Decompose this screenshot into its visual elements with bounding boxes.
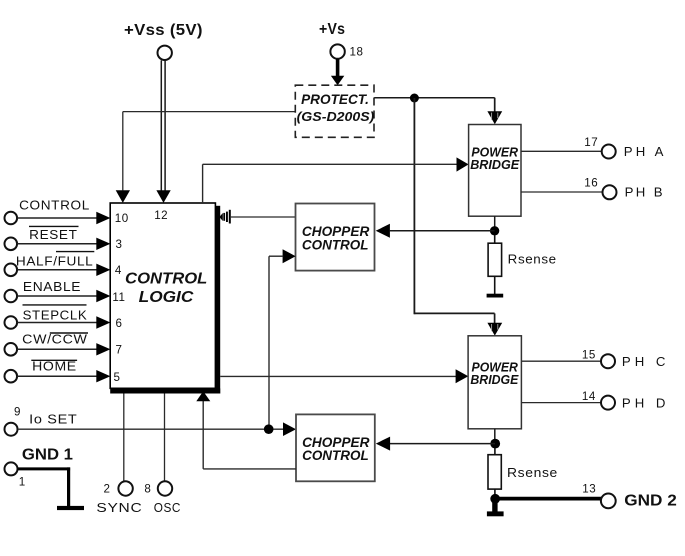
svg-text:STEPCLK: STEPCLK bbox=[23, 308, 88, 323]
wire OSC to control logic bottom bbox=[164, 394, 166, 482]
junction J1 on +Vs rail bbox=[410, 94, 419, 103]
svg-text:+Vss (5V): +Vss (5V) bbox=[124, 22, 203, 39]
input terminal CW/CCW pin 7 bbox=[5, 331, 111, 355]
junction J2 below bridge 1 bbox=[490, 226, 499, 235]
svg-text:12: 12 bbox=[154, 209, 168, 222]
svg-text:15: 15 bbox=[582, 349, 596, 362]
terminal +Vss pin 12 bbox=[124, 22, 203, 60]
output terminal PH D pin 14 bbox=[522, 390, 667, 410]
input terminal HALF/FULL pin 4 bbox=[5, 252, 111, 277]
wire control logic right to power bridge 2 bbox=[220, 375, 456, 377]
svg-text:13: 13 bbox=[582, 482, 596, 495]
wire chopper 2 output to control logic bottom bbox=[203, 401, 296, 469]
wire SYNC to control logic bottom bbox=[123, 394, 125, 482]
svg-text:Rsense: Rsense bbox=[507, 465, 558, 480]
svg-text:1: 1 bbox=[19, 476, 26, 489]
hatched arrow into control logic right (from chopper 1) bbox=[219, 210, 230, 224]
svg-text:10: 10 bbox=[115, 212, 129, 225]
wire chopper 1 output to control logic bbox=[231, 216, 296, 218]
svg-text:4: 4 bbox=[115, 264, 122, 277]
resistor Rsense 1 bbox=[488, 235, 557, 276]
svg-text:18: 18 bbox=[350, 46, 364, 59]
junction J3 below bridge 2 bbox=[490, 439, 500, 449]
svg-text:7: 7 bbox=[116, 343, 123, 356]
ground symbol GND 1 bbox=[57, 506, 84, 510]
wire +Vs rail down and to bridge 2 top bbox=[414, 98, 494, 323]
svg-text:Io SET: Io SET bbox=[29, 412, 77, 427]
chopper control block 2 bbox=[296, 414, 375, 481]
svg-text:6: 6 bbox=[116, 317, 123, 330]
svg-text:CONTROL: CONTROL bbox=[125, 271, 207, 288]
svg-text:PROTECT.: PROTECT. bbox=[301, 91, 369, 107]
wire control logic top to power bridge 1 bbox=[203, 164, 457, 203]
output terminal PH C pin 15 bbox=[522, 349, 667, 370]
svg-text:5: 5 bbox=[114, 371, 121, 384]
svg-text:PH C: PH C bbox=[622, 354, 666, 369]
thick wire GND 1 to ground bbox=[18, 467, 71, 506]
arrow into chopper 1 right bbox=[376, 224, 390, 238]
arrow into pin 10 bbox=[116, 190, 130, 203]
hatched arrow into power bridge 1 top bbox=[487, 111, 502, 124]
wire bridge 2 bottom to junction bbox=[494, 429, 496, 444]
terminal Io SET pin 9 bbox=[5, 406, 78, 436]
svg-text:GND 1: GND 1 bbox=[22, 446, 74, 463]
svg-text:CW/CCW: CW/CCW bbox=[22, 331, 87, 346]
svg-text:17: 17 bbox=[584, 136, 598, 149]
svg-text:RESET: RESET bbox=[29, 227, 77, 242]
svg-text:2: 2 bbox=[104, 482, 111, 495]
wire +Vss double line to pin 12 bbox=[161, 60, 165, 190]
terminal +Vs pin 18 bbox=[319, 21, 363, 59]
svg-text:BRIDGE: BRIDGE bbox=[470, 373, 519, 387]
svg-text:HALF/FULL: HALF/FULL bbox=[16, 253, 94, 268]
terminal OSC pin 8 bbox=[144, 481, 181, 515]
thick wire J4 to GND 2 terminal bbox=[495, 497, 601, 501]
svg-text:PH D: PH D bbox=[622, 395, 666, 410]
svg-text:Rsense: Rsense bbox=[508, 252, 557, 267]
svg-text:GND 2: GND 2 bbox=[624, 493, 677, 510]
output terminal PH B pin 16 bbox=[521, 176, 663, 199]
junction on Io SET wire bbox=[264, 424, 274, 434]
wire Io SET riser to chopper 1 bbox=[269, 256, 283, 429]
ground below J4 bbox=[487, 502, 504, 516]
svg-text:HOME: HOME bbox=[32, 358, 77, 373]
arrow into chopper 2 left input bbox=[283, 422, 296, 436]
terminal GND 1 pin 1 bbox=[5, 446, 74, 488]
svg-text:CONTROL: CONTROL bbox=[19, 198, 90, 213]
thick arrow +Vs into PROTECT bbox=[331, 59, 344, 85]
power bridge 2 block bbox=[468, 336, 521, 429]
svg-text:+Vs: +Vs bbox=[319, 21, 345, 38]
terminal GND 2 pin 13 bbox=[582, 482, 677, 509]
input terminal CONTROL pin 10 bbox=[5, 198, 111, 225]
arrow into power bridge 2 left bbox=[456, 369, 469, 383]
arrow into power bridge 1 left bbox=[457, 157, 469, 171]
svg-text:14: 14 bbox=[582, 390, 596, 403]
wire PROTECT right to bridge 1 top bbox=[374, 98, 495, 112]
svg-text:BRIDGE: BRIDGE bbox=[470, 158, 520, 172]
junction J4 below Rsense 2 bbox=[490, 494, 500, 504]
hatched arrow into power bridge 2 top bbox=[487, 323, 502, 336]
svg-text:(GS-D200S): (GS-D200S) bbox=[297, 109, 375, 124]
output terminal PH A pin 17 bbox=[521, 136, 664, 159]
input terminal HOME pin 5 bbox=[5, 358, 111, 382]
arrow into chopper 2 right bbox=[376, 437, 390, 451]
svg-text:CONTROL: CONTROL bbox=[302, 448, 369, 464]
wire J3 to chopper 2 right input bbox=[390, 443, 495, 445]
arrow up into control logic bottom bbox=[196, 391, 210, 401]
chopper control block 1 bbox=[296, 204, 375, 271]
ground below Rsense 1 bbox=[487, 276, 504, 297]
resistor Rsense 2 bbox=[488, 448, 558, 494]
svg-text:PH A: PH A bbox=[624, 144, 664, 159]
svg-text:16: 16 bbox=[584, 176, 598, 189]
power bridge 1 block bbox=[469, 125, 521, 217]
svg-text:9: 9 bbox=[14, 406, 21, 419]
terminal SYNC pin 2 bbox=[96, 481, 142, 515]
arrow into pin 12 bbox=[156, 190, 170, 203]
svg-text:8: 8 bbox=[144, 482, 151, 495]
svg-text:LOGIC: LOGIC bbox=[139, 289, 194, 306]
wire J2 to chopper 1 right input bbox=[390, 230, 495, 232]
svg-text:CONTROL: CONTROL bbox=[302, 237, 369, 253]
svg-text:PH B: PH B bbox=[625, 184, 664, 199]
input terminal STEPCLK pin 6 bbox=[5, 305, 111, 329]
input terminal RESET pin 3 bbox=[5, 226, 111, 250]
wire bridge 1 bottom to junction bbox=[494, 216, 496, 231]
svg-text:SYNC: SYNC bbox=[96, 500, 142, 515]
svg-text:11: 11 bbox=[112, 291, 125, 304]
arrow into chopper 1 left input bbox=[283, 249, 296, 263]
wire Io SET to choppers bbox=[18, 428, 283, 430]
svg-text:OSC: OSC bbox=[154, 500, 181, 515]
svg-text:3: 3 bbox=[116, 238, 123, 251]
control logic block bbox=[110, 203, 220, 394]
input terminal ENABLE pin 11 bbox=[5, 279, 111, 303]
protection block PROTECT (GS-D200S) dashed bbox=[295, 85, 374, 137]
wire from PROTECT left side to pin 10 bbox=[123, 112, 295, 191]
svg-text:ENABLE: ENABLE bbox=[23, 279, 81, 294]
